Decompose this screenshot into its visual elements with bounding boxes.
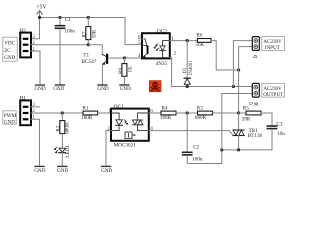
node D1 top junction [186, 39, 189, 42]
wire J1 pin1 down to return line [233, 41, 252, 87]
wire +5V rail [40, 18, 142, 45]
wire H1 pin3 stub [31, 106, 40, 108]
phototransistor inside OC2 [145, 39, 147, 46]
svg-text:GND: GND [57, 168, 68, 174]
svg-text:R1: R1 [82, 106, 88, 112]
svg-text:2: 2 [107, 126, 110, 132]
svg-text:C1: C1 [65, 17, 71, 23]
optocoupler OC2 4N35 [138, 29, 177, 68]
capacitor C2 100n [182, 113, 222, 164]
wire H2 pin1 to ground [31, 51, 40, 84]
LED1 [54, 145, 71, 166]
node triac/R5 junction [237, 111, 240, 114]
svg-text:INPUT: INPUT [265, 45, 281, 51]
wire R1 to OC1 pin1 [98, 112, 111, 114]
node rail/C2 junction [220, 148, 223, 151]
wire OC1 pin4 to triac gate [149, 131, 233, 136]
node D1 bottom junction [186, 85, 189, 88]
resistor R8 1K [118, 58, 133, 84]
capacitor C1 100n [55, 17, 76, 84]
svg-text:2: 2 [32, 40, 35, 46]
svg-text:C2: C2 [193, 144, 199, 150]
node base/R8 junction [123, 56, 126, 59]
svg-text:R4: R4 [162, 106, 168, 112]
ground GND under C1 [53, 84, 65, 92]
svg-text:5: 5 [138, 40, 141, 46]
resistor R4 180R [160, 106, 176, 121]
ground GND under OC1 pin2 [101, 166, 113, 174]
svg-text:R2: R2 [56, 125, 62, 131]
svg-text:BT136: BT136 [248, 133, 263, 139]
light arrow inside OC1 [124, 120, 127, 125]
resistor R7 10K [82, 18, 98, 45]
ground GND under LED1 [57, 166, 68, 174]
connector J1 [252, 37, 259, 58]
resistor R2 680R [56, 113, 71, 148]
svg-text:2: 2 [174, 51, 177, 57]
connector H1 [20, 96, 36, 126]
svg-text:T1: T1 [83, 53, 89, 59]
svg-text:R5: R5 [243, 105, 249, 111]
wire T1 base to OC2 pin4 [108, 57, 142, 59]
svg-text:100n: 100n [192, 157, 203, 163]
LED inside OC2 [163, 41, 170, 46]
svg-text:680R: 680R [195, 115, 207, 121]
resistor R6 56K [195, 32, 211, 47]
svg-text:10K: 10K [92, 29, 98, 38]
wire ZC from H2 pin2 to R7 node [31, 44, 88, 46]
svg-text:LED1: LED1 [65, 145, 71, 158]
transistor T1 BC547 [82, 45, 109, 85]
node C2 junction [186, 111, 189, 114]
wire H1 pin2 to R1 [31, 112, 83, 114]
node live/return junction [232, 85, 235, 88]
svg-text:GND: GND [101, 168, 112, 174]
svg-text:VDC: VDC [4, 40, 15, 46]
wire H1 pin1 to ground [31, 119, 40, 165]
wire R6 to J1 pin2 net [211, 41, 239, 70]
svg-text:C3: C3 [276, 122, 282, 128]
connector H2 [20, 28, 36, 58]
svg-text:R8: R8 [118, 68, 124, 74]
label box PWM GND [3, 111, 17, 126]
svg-text:BC547: BC547 [82, 59, 97, 65]
svg-text:D1: D1 [183, 67, 188, 74]
svg-text:4: 4 [150, 126, 153, 132]
resistor R3 680R [195, 106, 213, 121]
svg-text:1: 1 [108, 108, 111, 114]
light arrows inside OC2 [154, 44, 158, 48]
resistor R5 39R [239, 105, 261, 122]
optocoupler OC1 MOC3021 [107, 104, 153, 149]
node +5V junction [38, 16, 41, 19]
resistor R1 180R [81, 106, 98, 121]
svg-text:1: 1 [32, 47, 35, 53]
capacitor C3 10n [261, 113, 285, 150]
svg-text:R3: R3 [197, 106, 203, 112]
svg-text:1K: 1K [127, 66, 133, 73]
wire +5V to H2 pin3 [31, 18, 40, 39]
wire R3 to triac node [213, 112, 239, 114]
wire OC2 pin2 return line [170, 58, 253, 87]
node C1 junction [58, 16, 61, 19]
diode D1 1N4001 [183, 41, 194, 87]
svg-text:MOC3021: MOC3021 [114, 142, 137, 148]
zero-cross block inside OC1 [125, 132, 132, 139]
ground GND under H2 pin1 [34, 84, 45, 92]
svg-text:GND: GND [34, 168, 45, 174]
wire J1 pin2 down to triac top node [239, 47, 253, 113]
wire OC2 pin1 to R6/D1 [170, 40, 198, 42]
node rail/triac junction [237, 148, 240, 151]
svg-text:+5V: +5V [36, 4, 47, 10]
svg-text:39R: 39R [242, 116, 251, 122]
LED inside OC1 [111, 113, 119, 120]
svg-text:R7: R7 [82, 31, 88, 37]
svg-text:OUTPUT: OUTPUT [263, 92, 284, 98]
svg-text:PWM: PWM [4, 113, 17, 119]
ground GND under R8 [119, 84, 131, 92]
triac inside OC1 [138, 113, 149, 120]
+5V power symbol [36, 4, 47, 17]
connector J2 [250, 83, 260, 106]
ground GND under H1 pin1 [34, 166, 45, 174]
triac TR1 BT136 [233, 113, 263, 150]
svg-text:GND: GND [120, 86, 131, 92]
svg-text:ZC: ZC [4, 48, 11, 54]
wire J2 pin2 to rail [222, 94, 253, 150]
icon danger skull [149, 81, 161, 92]
node junction R6/J1pin2 [237, 68, 240, 71]
label box AC230V INPUT [262, 37, 285, 52]
svg-text:680R: 680R [64, 122, 70, 134]
svg-text:180R: 180R [81, 115, 93, 121]
svg-text:100n: 100n [65, 29, 76, 35]
svg-text:GND: GND [4, 55, 15, 61]
wire R4 to R3 [176, 112, 198, 114]
node ZC/R7/T1 junction [87, 43, 90, 46]
svg-text:GND: GND [97, 86, 108, 92]
svg-text:GND: GND [4, 119, 15, 125]
svg-text:180R: 180R [160, 115, 172, 121]
node R7 junction [87, 16, 90, 19]
svg-text:1N4001: 1N4001 [189, 60, 194, 76]
svg-text:4: 4 [138, 53, 141, 59]
wire bottom rail MT1 [222, 149, 272, 151]
svg-text:GND: GND [53, 86, 64, 92]
svg-text:GND: GND [34, 86, 45, 92]
wire OC1 pin2 to ground [106, 131, 111, 166]
ground GND under T1 emitter [97, 84, 109, 92]
svg-text:56K: 56K [195, 42, 204, 48]
svg-text:4N35: 4N35 [156, 61, 168, 67]
svg-text:10n: 10n [277, 131, 285, 137]
label box VDC ZC GND [3, 37, 17, 61]
pin 6 stub [138, 38, 145, 40]
node R2 junction [61, 111, 64, 114]
svg-text:J2: J2 [250, 101, 255, 106]
svg-text:R6: R6 [196, 32, 202, 38]
label box AC230V OUTPUT [262, 83, 285, 98]
wire OC1 pin6 to R4 [149, 112, 161, 114]
